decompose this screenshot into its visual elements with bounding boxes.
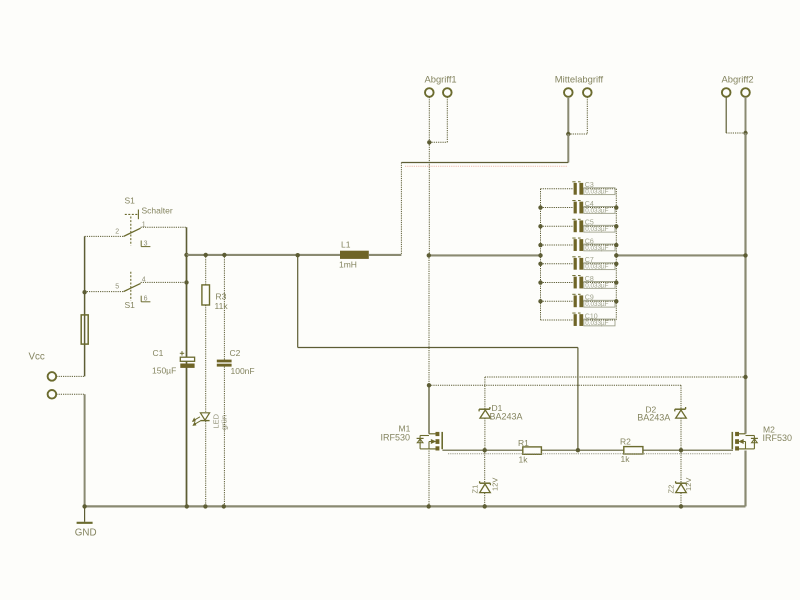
svg-text:Z2: Z2 (667, 485, 676, 494)
svg-text:150µF: 150µF (152, 366, 176, 376)
svg-text:2: 2 (115, 229, 119, 236)
svg-text:0,033µF: 0,033µF (585, 245, 608, 252)
svg-text:0,033µF: 0,033µF (585, 226, 608, 233)
svg-text:100nF: 100nF (231, 366, 255, 376)
svg-text:GND: GND (75, 528, 97, 539)
svg-text:S1: S1 (125, 300, 136, 310)
svg-text:0,033µF: 0,033µF (585, 282, 608, 289)
svg-text:5: 5 (115, 284, 119, 291)
svg-text:BA243A: BA243A (490, 412, 523, 422)
svg-text:C1: C1 (153, 348, 164, 358)
svg-text:0,033µF: 0,033µF (585, 301, 608, 308)
svg-text:L1: L1 (341, 240, 351, 250)
svg-text:Schalter: Schalter (142, 206, 173, 216)
svg-text:Mittelabgriff: Mittelabgriff (555, 74, 604, 85)
svg-text:R3: R3 (216, 292, 227, 302)
svg-text:Abgriff1: Abgriff1 (425, 74, 457, 85)
svg-text:0,033µF: 0,033µF (585, 189, 608, 196)
svg-text:R1: R1 (518, 438, 529, 448)
svg-text:S1: S1 (125, 196, 136, 206)
svg-text:0,033µF: 0,033µF (585, 207, 608, 214)
svg-text:Vcc: Vcc (29, 352, 45, 363)
svg-text:12V: 12V (491, 478, 500, 491)
svg-text:6: 6 (144, 296, 148, 303)
svg-text:1mH: 1mH (339, 260, 357, 270)
svg-text:11k: 11k (215, 301, 229, 311)
svg-text:IRF530: IRF530 (763, 433, 793, 443)
svg-text:3: 3 (144, 241, 148, 248)
svg-text:1: 1 (142, 222, 146, 229)
svg-text:BA243A: BA243A (637, 413, 670, 423)
svg-text:1k: 1k (519, 455, 529, 465)
svg-text:Z1: Z1 (471, 485, 480, 494)
svg-text:1k: 1k (621, 454, 631, 464)
svg-text:0,033µF: 0,033µF (585, 264, 608, 271)
svg-text:12V: 12V (684, 478, 693, 491)
svg-text:4: 4 (142, 277, 146, 284)
svg-text:Abgriff2: Abgriff2 (722, 74, 754, 85)
svg-text:R2: R2 (620, 437, 631, 447)
svg-text:IRF530: IRF530 (381, 433, 411, 443)
svg-text:C2: C2 (230, 348, 241, 358)
svg-text:0,033µF: 0,033µF (585, 320, 608, 327)
